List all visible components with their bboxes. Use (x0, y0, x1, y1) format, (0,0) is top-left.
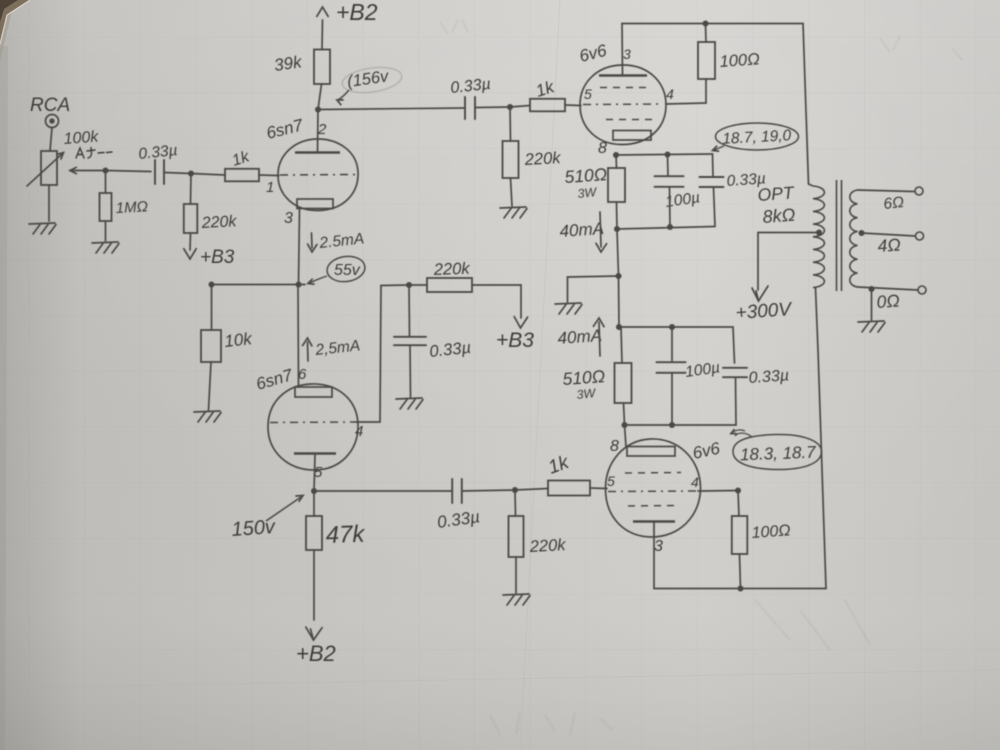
wire pot to ground (48, 185, 50, 221)
node M bottom rail lower (622, 422, 628, 428)
svg-text:100Ω: 100Ω (751, 522, 791, 542)
wire node O to 100R lower (738, 491, 739, 517)
wire 100R lower to plate rail (740, 554, 741, 589)
svg-text:6Ω: 6Ω (883, 194, 905, 213)
svg-text:4: 4 (355, 423, 363, 440)
potentiometer VR1 wiper arrow (27, 153, 63, 186)
potentiometer VR1 100k body (41, 151, 57, 185)
wire V1a cathode down to node Q (299, 209, 300, 285)
svg-text:+B2: +B2 (296, 641, 336, 666)
capacitor 0.33u cathode lower (723, 368, 747, 377)
ellipse note 18.3 18.7 (733, 434, 822, 469)
V2 screen grid dashed (600, 87, 648, 89)
node S divider (406, 282, 412, 288)
arrow +B2 bottom (306, 627, 322, 640)
wire V2 pin4 to 100R (666, 103, 706, 104)
svg-text:8: 8 (610, 438, 619, 455)
svg-text:+300V: +300V (735, 299, 794, 324)
arrow to bubble 18.3 (732, 430, 746, 433)
V2 plate bar pin3 (599, 74, 647, 77)
svg-text:220k: 220k (433, 260, 471, 279)
transformer OPT secondary winding (850, 190, 858, 287)
capacitor C1 0.33u input (155, 160, 164, 184)
wire 510R lower to bottom rail (624, 403, 625, 425)
svg-text:3: 3 (654, 538, 663, 555)
wire node G to 100u (667, 155, 670, 176)
node L top rail lower (669, 324, 675, 330)
wire 1k V3 to pin5 (590, 487, 607, 490)
wire cathode row (212, 284, 306, 286)
terminal 0 ohm (918, 286, 926, 294)
wire node C to 39k (318, 84, 322, 110)
svg-text:510Ω: 510Ω (564, 164, 608, 187)
resistor 220k grid return (184, 204, 198, 233)
wire V1b grid to node S (356, 286, 381, 423)
wire 1k to V2 grid pin5 (565, 104, 581, 107)
node J mid link (616, 273, 622, 279)
node B grid1 (188, 171, 194, 177)
wire cathode rail upper (616, 154, 713, 155)
V1b grid dashed pin4 (270, 421, 356, 424)
node N bottom rail lower (669, 422, 675, 428)
node R cathode row (209, 282, 215, 288)
wire V1a plate to node C (317, 110, 320, 153)
svg-text:0.33µ: 0.33µ (748, 367, 789, 387)
wire node K to 510R lower (621, 327, 622, 363)
ellipse note 55v (325, 254, 366, 284)
svg-text:55v: 55v (334, 262, 361, 279)
wire right leg to 0.33u lower (733, 327, 735, 363)
svg-text:5: 5 (607, 473, 615, 489)
capacitor 100u cathode upper (655, 176, 684, 187)
wire node C to C2 (318, 108, 464, 110)
node I bottom rail (667, 224, 673, 230)
wire V1b cathode up to node Q (297, 285, 300, 388)
wire V3 plate down (653, 522, 655, 589)
V3 beam plate dashed (625, 472, 681, 475)
capacitor 0.33u divider (394, 337, 426, 345)
wire 10k to ground (209, 362, 212, 410)
terminal 6 ohm (915, 187, 923, 195)
svg-text:2: 2 (317, 121, 327, 138)
wire center tap to +300V branch (758, 232, 819, 234)
arrow to bubble 18.7 (714, 146, 724, 150)
wire +300V branch down (757, 233, 759, 291)
wire wiper to node A (70, 170, 106, 172)
arrow to +B3 (184, 249, 196, 259)
resistor 220k divider (427, 278, 472, 292)
wire 100u to bottom rail (669, 187, 672, 227)
resistor 47k plate load V1b (306, 516, 322, 550)
wire secondary top tap (858, 190, 915, 192)
wire node D to 1k V2 (510, 106, 530, 108)
wire 1k to V1a grid pin1 (259, 174, 279, 177)
wire plate rail up to OPT primary bottom (816, 288, 827, 589)
arrow to 55v node (310, 276, 328, 283)
wire node M to V3 cathode (625, 425, 627, 447)
wire secondary bottom tap (858, 287, 919, 290)
wire arrow 40mA lower (599, 322, 600, 356)
wire node H down to node J (617, 229, 619, 276)
arrow 150v pointer (266, 497, 301, 521)
wire node J to ground branch (568, 276, 619, 277)
svg-text:+B3: +B3 (200, 247, 235, 268)
wire 100u lower to bottom rail (671, 373, 673, 425)
V1a plate bar pin2 (295, 151, 340, 154)
V3 screen grid dashed (628, 505, 679, 508)
resistor 510R cathode lower (615, 363, 632, 403)
svg-text:40mA: 40mA (559, 219, 605, 241)
svg-text:220k: 220k (528, 536, 566, 556)
wire 220k V2 to ground (511, 178, 513, 206)
node F V2 cathode (613, 152, 619, 158)
svg-text:40mA: 40mA (557, 326, 603, 348)
ground 1M (92, 242, 119, 253)
terminal 4 ohm (916, 232, 924, 240)
faint circle around 156v (341, 64, 404, 96)
svg-text:47k: 47k (325, 521, 367, 549)
svg-text:10k: 10k (223, 329, 254, 351)
svg-text:+B2: +B2 (336, 0, 378, 25)
svg-text:510Ω: 510Ω (562, 366, 606, 389)
wire node D down to 220k (509, 107, 512, 141)
V3 control grid dashed pin5 pin4 (608, 490, 696, 493)
svg-text:OPT: OPT (757, 182, 796, 205)
wire V2 plate to top rail (621, 24, 624, 76)
node W secondary mid tap (859, 230, 865, 236)
svg-text:18.7, 19,0: 18.7, 19,0 (722, 127, 792, 148)
svg-text:4Ω: 4Ω (877, 234, 901, 256)
wire to 0.33u upper right (712, 154, 715, 177)
node P plate rail (738, 586, 744, 592)
wire node U to 220k V3 (514, 490, 517, 516)
svg-text:39k: 39k (273, 52, 304, 75)
V1b cathode box pin6 (top) (295, 387, 332, 397)
svg-text:100k: 100k (63, 129, 100, 148)
wire top rail lower cell (619, 326, 733, 328)
wire node S to 220k divider (409, 284, 427, 286)
svg-text:8: 8 (598, 140, 607, 157)
wire 220k V3 to ground (515, 557, 517, 593)
wire secondary mid tap (862, 233, 916, 236)
wire to node S (381, 284, 409, 287)
svg-text:5: 5 (584, 86, 592, 102)
svg-text:0Ω: 0Ω (876, 290, 900, 312)
svg-text:3: 3 (623, 46, 631, 62)
wire 0.33u to bottom rail (714, 188, 716, 227)
arrow +300V (752, 286, 768, 301)
wire 0.33u divider to ground (409, 346, 412, 398)
node D grid V2 (507, 104, 513, 110)
wire node T to 47k (313, 491, 315, 516)
ground secondary (858, 321, 885, 332)
transformer OPT primary winding (809, 184, 825, 288)
node H bottom rail (614, 226, 620, 232)
svg-text:6: 6 (298, 366, 307, 383)
wire node S to 0.33u divider (408, 285, 411, 336)
svg-text:3W: 3W (576, 386, 597, 402)
ground 10k (194, 411, 221, 422)
resistor 220k grid V3 (509, 516, 524, 557)
wire 39k to +B2 (321, 20, 324, 50)
wire V3 pin4 to 100R lower (698, 490, 738, 493)
beam tetrode V3 6V6 (lower) envelope (605, 439, 700, 537)
ground 220k V2 (500, 207, 527, 218)
wire V1b plate to node T (314, 455, 315, 491)
ellipse note 18.7 19.0 (716, 123, 799, 150)
resistor 1k grid stopper V2 (530, 99, 565, 112)
arrow to +B3 right (514, 317, 527, 328)
svg-text:100Ω: 100Ω (719, 50, 760, 71)
resistor 1k grid stopper V1a (225, 169, 259, 182)
svg-text:220k: 220k (523, 149, 561, 169)
V1a cathode box pin3 (297, 199, 333, 209)
wire node U to 1k V3 (515, 489, 548, 491)
ground 220k V3 (503, 594, 530, 605)
V3 plate bar pin3 (bottom) (633, 520, 675, 522)
wire C1 to node B (164, 173, 191, 174)
svg-text:4: 4 (691, 474, 699, 490)
wire node J down to node K (618, 276, 621, 327)
wire bottom rail upper cell (617, 227, 715, 230)
svg-text:1MΩ: 1MΩ (115, 198, 148, 217)
svg-text:RCA: RCA (30, 95, 70, 116)
wire node E to 100R (705, 24, 708, 43)
arrow wiper tap (70, 167, 76, 173)
wire secondary to ground (871, 289, 873, 320)
node G cathode rail (665, 152, 671, 158)
wire node B to R 1k grid stopper (191, 174, 225, 176)
node U grid V3 (512, 487, 518, 493)
V1b plate bar pin5 (bottom) (294, 452, 336, 454)
svg-text:3W: 3W (577, 185, 598, 201)
wire 220k to +B3 arrow (189, 233, 192, 250)
svg-text:220k: 220k (200, 213, 238, 232)
svg-text:3: 3 (284, 210, 293, 227)
wire node A to C1 (106, 171, 152, 172)
wire 100R to screen wire (705, 79, 707, 103)
svg-text:1: 1 (266, 179, 274, 196)
label A-curve (katakana) (76, 148, 112, 159)
resistor 10k common cathode (201, 330, 221, 362)
wire node L to 100u lower (671, 327, 673, 361)
wire arrow 40mA upper (600, 212, 601, 247)
V2 control grid dashed pin5 pin4 (583, 103, 661, 106)
ground pot (29, 223, 56, 234)
triode V1b 6SN7 (lower half) envelope (268, 384, 358, 470)
resistor 100R screen lower (732, 516, 748, 554)
node K top rail lower cell (616, 324, 622, 330)
V2 beam plate dashed (606, 119, 656, 121)
wire node A to R 1M (105, 171, 107, 194)
svg-text:4: 4 (666, 86, 674, 102)
svg-text:8kΩ: 8kΩ (762, 205, 796, 227)
node V OPT center tap (816, 230, 822, 236)
wire top rail down to OPT primary top (803, 24, 809, 185)
node C V1a plate (315, 107, 321, 113)
resistor 1M (100, 193, 112, 221)
V2 cathode box pin8 (613, 131, 651, 141)
node A input (103, 168, 109, 174)
wire node T to C3 (314, 490, 452, 492)
wire node B down to 220k (190, 174, 193, 205)
node X secondary ground tap (869, 286, 875, 292)
wire 220k divider to +B3 (472, 285, 521, 318)
ground mid (555, 303, 582, 314)
V1a grid (dashed) pin1 (280, 174, 357, 177)
svg-text:+B3: +B3 (496, 329, 534, 352)
capacitor C3 0.33u coupling lower (452, 479, 462, 503)
svg-text:18.3, 18.7: 18.3, 18.7 (740, 443, 817, 465)
resistor 220k grid V2 (503, 141, 519, 178)
transformer OPT core (837, 180, 842, 291)
wire node F to 510R (615, 155, 618, 168)
wire C2 to node D (476, 106, 511, 109)
wire R 1M to ground (105, 221, 107, 241)
wire node R to 10k (211, 285, 213, 331)
wire ground branch down (567, 277, 569, 302)
wire plate rail lower (654, 588, 826, 590)
wire arrow 2.5mA lower (307, 342, 310, 361)
triode V1a 6SN7 (upper half) envelope (278, 139, 358, 211)
node T V1b plate (311, 488, 317, 494)
resistor 100R screen upper (698, 42, 715, 79)
wire arrow 2.5mA upper (311, 233, 314, 248)
resistor 1k grid stopper V3 (548, 481, 590, 496)
capacitor 100u cathode lower (657, 362, 686, 373)
wire C3 to node U (462, 490, 515, 491)
wire 510R to bottom rail upper (616, 202, 619, 229)
wire jack to pot (50, 128, 52, 152)
wire 0.33u lower to bottom rail (735, 378, 738, 426)
V3 cathode box pin8 (top) (627, 447, 675, 457)
beam tetrode V2 6V6 (upper) envelope (580, 65, 666, 145)
arrow +B2 top (317, 7, 328, 16)
arrow 156v pointer (339, 90, 350, 100)
capacitor C2 0.33u coupling upper (465, 97, 475, 119)
wire bottom rail lower cell (625, 424, 737, 426)
node Q cathodes (296, 282, 302, 288)
svg-text:150v: 150v (231, 516, 277, 541)
ground divider (396, 398, 423, 409)
RCA jack J1 (46, 115, 59, 128)
node E top rail (703, 21, 709, 27)
capacitor 0.33u cathode upper (700, 177, 724, 187)
wire 47k to +B2 bottom (313, 550, 315, 620)
node O screen lower (735, 488, 741, 494)
wire top rail (622, 23, 803, 25)
resistor 39k plate load (314, 50, 330, 85)
resistor 510R cathode upper (608, 168, 625, 202)
